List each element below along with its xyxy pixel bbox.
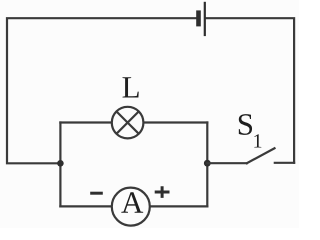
wire [206, 18, 294, 163]
switch S1 [207, 148, 294, 163]
wire [59, 123, 61, 207]
label S1 [239, 114, 252, 135]
wire [143, 121, 207, 123]
label minus [90, 192, 103, 195]
node right junction [204, 160, 211, 167]
label S1 subscript 1 [254, 134, 261, 147]
label plus [155, 186, 170, 198]
wire [60, 121, 111, 123]
wire [7, 18, 196, 163]
lamp L [112, 107, 144, 139]
battery B1 [196, 2, 206, 36]
wire [60, 205, 207, 207]
label L [123, 77, 139, 97]
ammeter A [112, 188, 150, 226]
node left junction [57, 160, 64, 167]
wire [206, 123, 208, 207]
